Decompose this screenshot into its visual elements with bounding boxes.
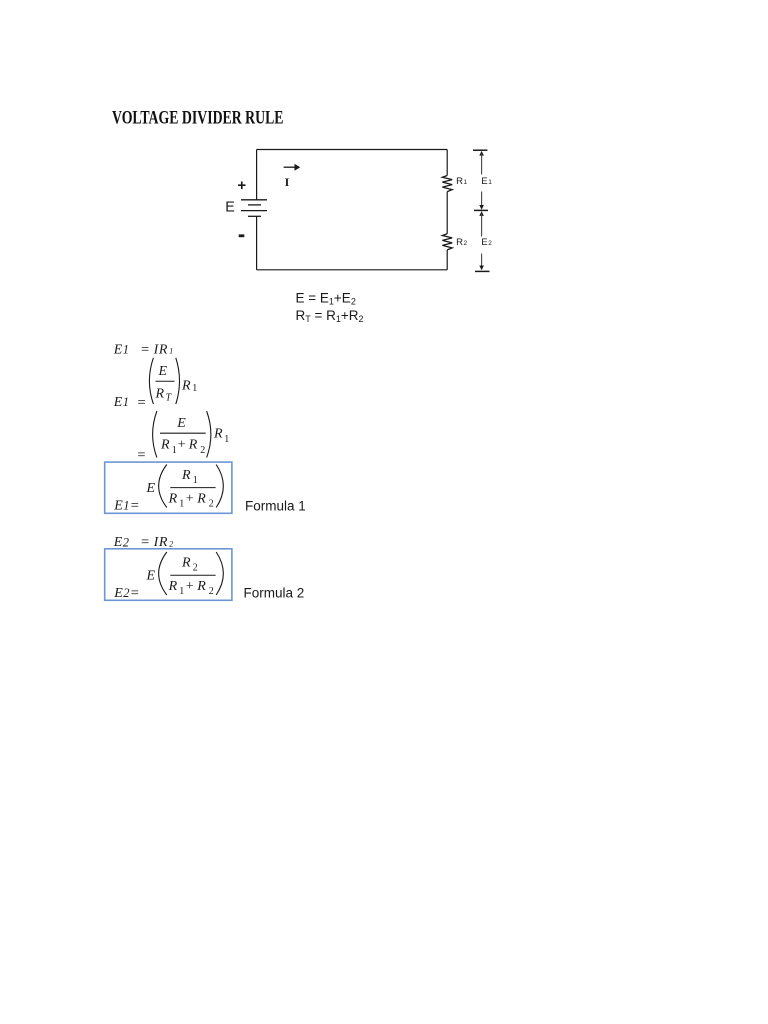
wire top [257,149,448,151]
voltage marker top bar [473,149,487,151]
svg-text:R: R [456,176,463,187]
svg-text:1: 1 [172,445,177,456]
label E2 [481,237,492,248]
svg-text:+: + [186,491,194,506]
svg-text:2: 2 [209,498,214,509]
left paren [149,358,153,404]
derivation line = (E/(R1+R2))R1 [137,411,229,463]
svg-text:1: 1 [123,395,129,409]
wire bottom [257,269,448,271]
equation RT = R1+R2 [296,308,364,324]
svg-text:E: E [481,237,487,248]
resistor R1 [442,176,452,192]
formula 2 equation E2 = E(R2/(R1+R2)) [113,552,223,602]
svg-text:2: 2 [209,586,214,597]
svg-text:T: T [166,393,173,404]
svg-text:2: 2 [488,240,492,247]
left paren [153,411,157,458]
svg-text:R: R [160,438,170,453]
svg-text:E: E [113,395,123,410]
svg-text:=: = [137,447,145,463]
formula 1 box [105,462,232,513]
svg-text:1: 1 [179,498,184,509]
svg-text:E: E [113,535,123,550]
label Formula 1 [245,499,306,514]
svg-text:RT = R1+R2: RT = R1+R2 [296,308,364,324]
svg-text:E: E [481,176,487,187]
wire right upper [446,150,448,176]
right paren [216,552,223,595]
svg-text:2: 2 [200,445,205,456]
fraction bar [170,574,215,576]
svg-text:E: E [113,586,123,601]
derivation line E1 = IR1 [113,342,174,358]
label E1 [481,176,492,187]
svg-text:+: + [178,438,186,453]
svg-text:=: = [131,498,139,514]
svg-text:1: 1 [169,347,173,356]
svg-text:Formula 2: Formula 2 [244,586,305,601]
equation E = E1+E2 [296,291,356,307]
svg-text:I: I [285,175,290,189]
right paren [216,465,223,508]
right paren [176,358,180,404]
svg-text:R: R [188,438,198,453]
svg-text:R: R [213,427,223,442]
svg-text:E: E [113,498,123,513]
svg-text:E: E [158,364,168,379]
svg-text:IR: IR [153,343,168,358]
svg-text:IR: IR [153,535,168,550]
svg-text:=: = [141,534,149,550]
wire right middle [446,192,448,234]
formula 2 box [105,549,232,601]
fraction bar [160,432,206,434]
battery plus sign [237,177,246,194]
svg-text:1: 1 [123,498,129,512]
resistor R2 [442,234,452,250]
left paren [159,465,167,508]
svg-text:=: = [131,586,139,602]
label R1 [456,176,467,187]
battery label E [225,200,235,216]
svg-text:1: 1 [123,343,129,357]
svg-text:1: 1 [179,586,184,597]
svg-text:1: 1 [464,179,468,186]
wire left upper [256,150,258,200]
current label I [285,175,290,189]
svg-text:1: 1 [193,475,198,486]
E1 span arrow upper [479,151,484,175]
voltage marker bottom bar [475,270,490,272]
E2 span arrow upper [479,211,484,236]
svg-text:R: R [155,387,165,402]
svg-text:R: R [181,468,191,483]
svg-text:2: 2 [123,586,129,600]
label R2 [456,237,467,248]
svg-text:+: + [186,579,194,594]
svg-text:=: = [141,342,149,358]
svg-text:1: 1 [192,383,197,394]
svg-text:R: R [196,579,206,594]
right paren [207,411,211,458]
current arrow I [284,164,301,171]
svg-text:E: E [176,416,186,431]
svg-text:2: 2 [123,535,129,549]
wire right lower [446,250,448,270]
svg-text:1: 1 [488,179,492,186]
svg-text:R: R [196,491,206,506]
fraction bar [170,487,215,489]
wire left lower [256,216,258,269]
svg-text:R: R [181,379,191,394]
svg-text:E: E [146,569,156,584]
svg-text:E: E [113,343,123,358]
left paren [159,552,167,595]
label Formula 2 [244,586,305,601]
voltage marker middle bar [474,209,488,211]
svg-text:2: 2 [169,539,173,548]
svg-text:VOLTAGE DIVIDER RULE: VOLTAGE DIVIDER RULE [112,108,284,129]
svg-text:E: E [146,481,156,496]
formula 1 equation E1 = E(R1/(R1+R2)) [113,465,223,515]
svg-text:2: 2 [464,240,468,247]
derivation line E2 = IR2 [113,534,174,550]
svg-text:E: E [225,200,235,216]
svg-text:+: + [237,177,246,194]
svg-text:=: = [138,395,146,411]
svg-text:R: R [168,491,178,506]
fraction bar [156,380,175,382]
svg-text:2: 2 [193,562,198,573]
svg-text:R: R [456,237,463,248]
svg-text:Formula 1: Formula 1 [245,499,306,514]
svg-text:E = E1+E2: E = E1+E2 [296,291,356,307]
title VOLTAGE DIVIDER RULE [112,108,284,129]
svg-text:R: R [181,555,191,570]
battery minus sign [239,234,245,237]
derivation line E1 = (E/RT)R1 [113,358,198,411]
svg-text:R: R [168,579,178,594]
svg-text:1: 1 [224,434,229,445]
battery E [241,200,267,217]
E2 span arrow lower [479,254,484,271]
E1 span arrow lower [479,192,484,210]
